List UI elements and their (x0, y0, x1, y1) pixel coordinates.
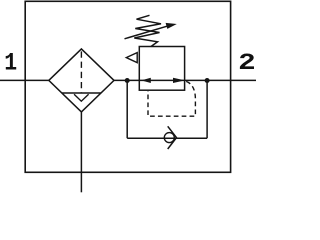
filter element dashed line (80, 51, 82, 92)
svg-text:2: 2 (238, 50, 256, 76)
spring (adjustment) zigzag (134, 15, 161, 46)
adjustment arrow shaft (125, 25, 171, 39)
enclosure frame (25, 1, 230, 172)
adjustment arrow head (166, 23, 177, 29)
filter separator chord (62, 92, 101, 94)
junction dot left (125, 78, 130, 83)
junction dot right (205, 78, 210, 83)
filter F1 diamond (49, 49, 114, 112)
svg-text:1: 1 (4, 48, 17, 77)
flow arrow right (output) (173, 78, 185, 83)
filter drain arrow V (74, 94, 89, 101)
wire main flow line port 1 to filter (0, 79, 49, 81)
relief vent triangle (126, 53, 137, 63)
wire drain line (80, 112, 82, 192)
wire bypass bottom (127, 137, 207, 139)
regulator U1 body (139, 47, 184, 91)
wire bypass left vertical (126, 80, 128, 138)
pilot line dashed loop (148, 81, 195, 116)
check valve seat (168, 126, 177, 149)
check valve V1 ball (164, 133, 174, 143)
wire bypass right vertical (206, 80, 208, 138)
wire main flow line filter to port 2 (114, 79, 256, 81)
flow arrow left (relief direction) (141, 78, 151, 83)
